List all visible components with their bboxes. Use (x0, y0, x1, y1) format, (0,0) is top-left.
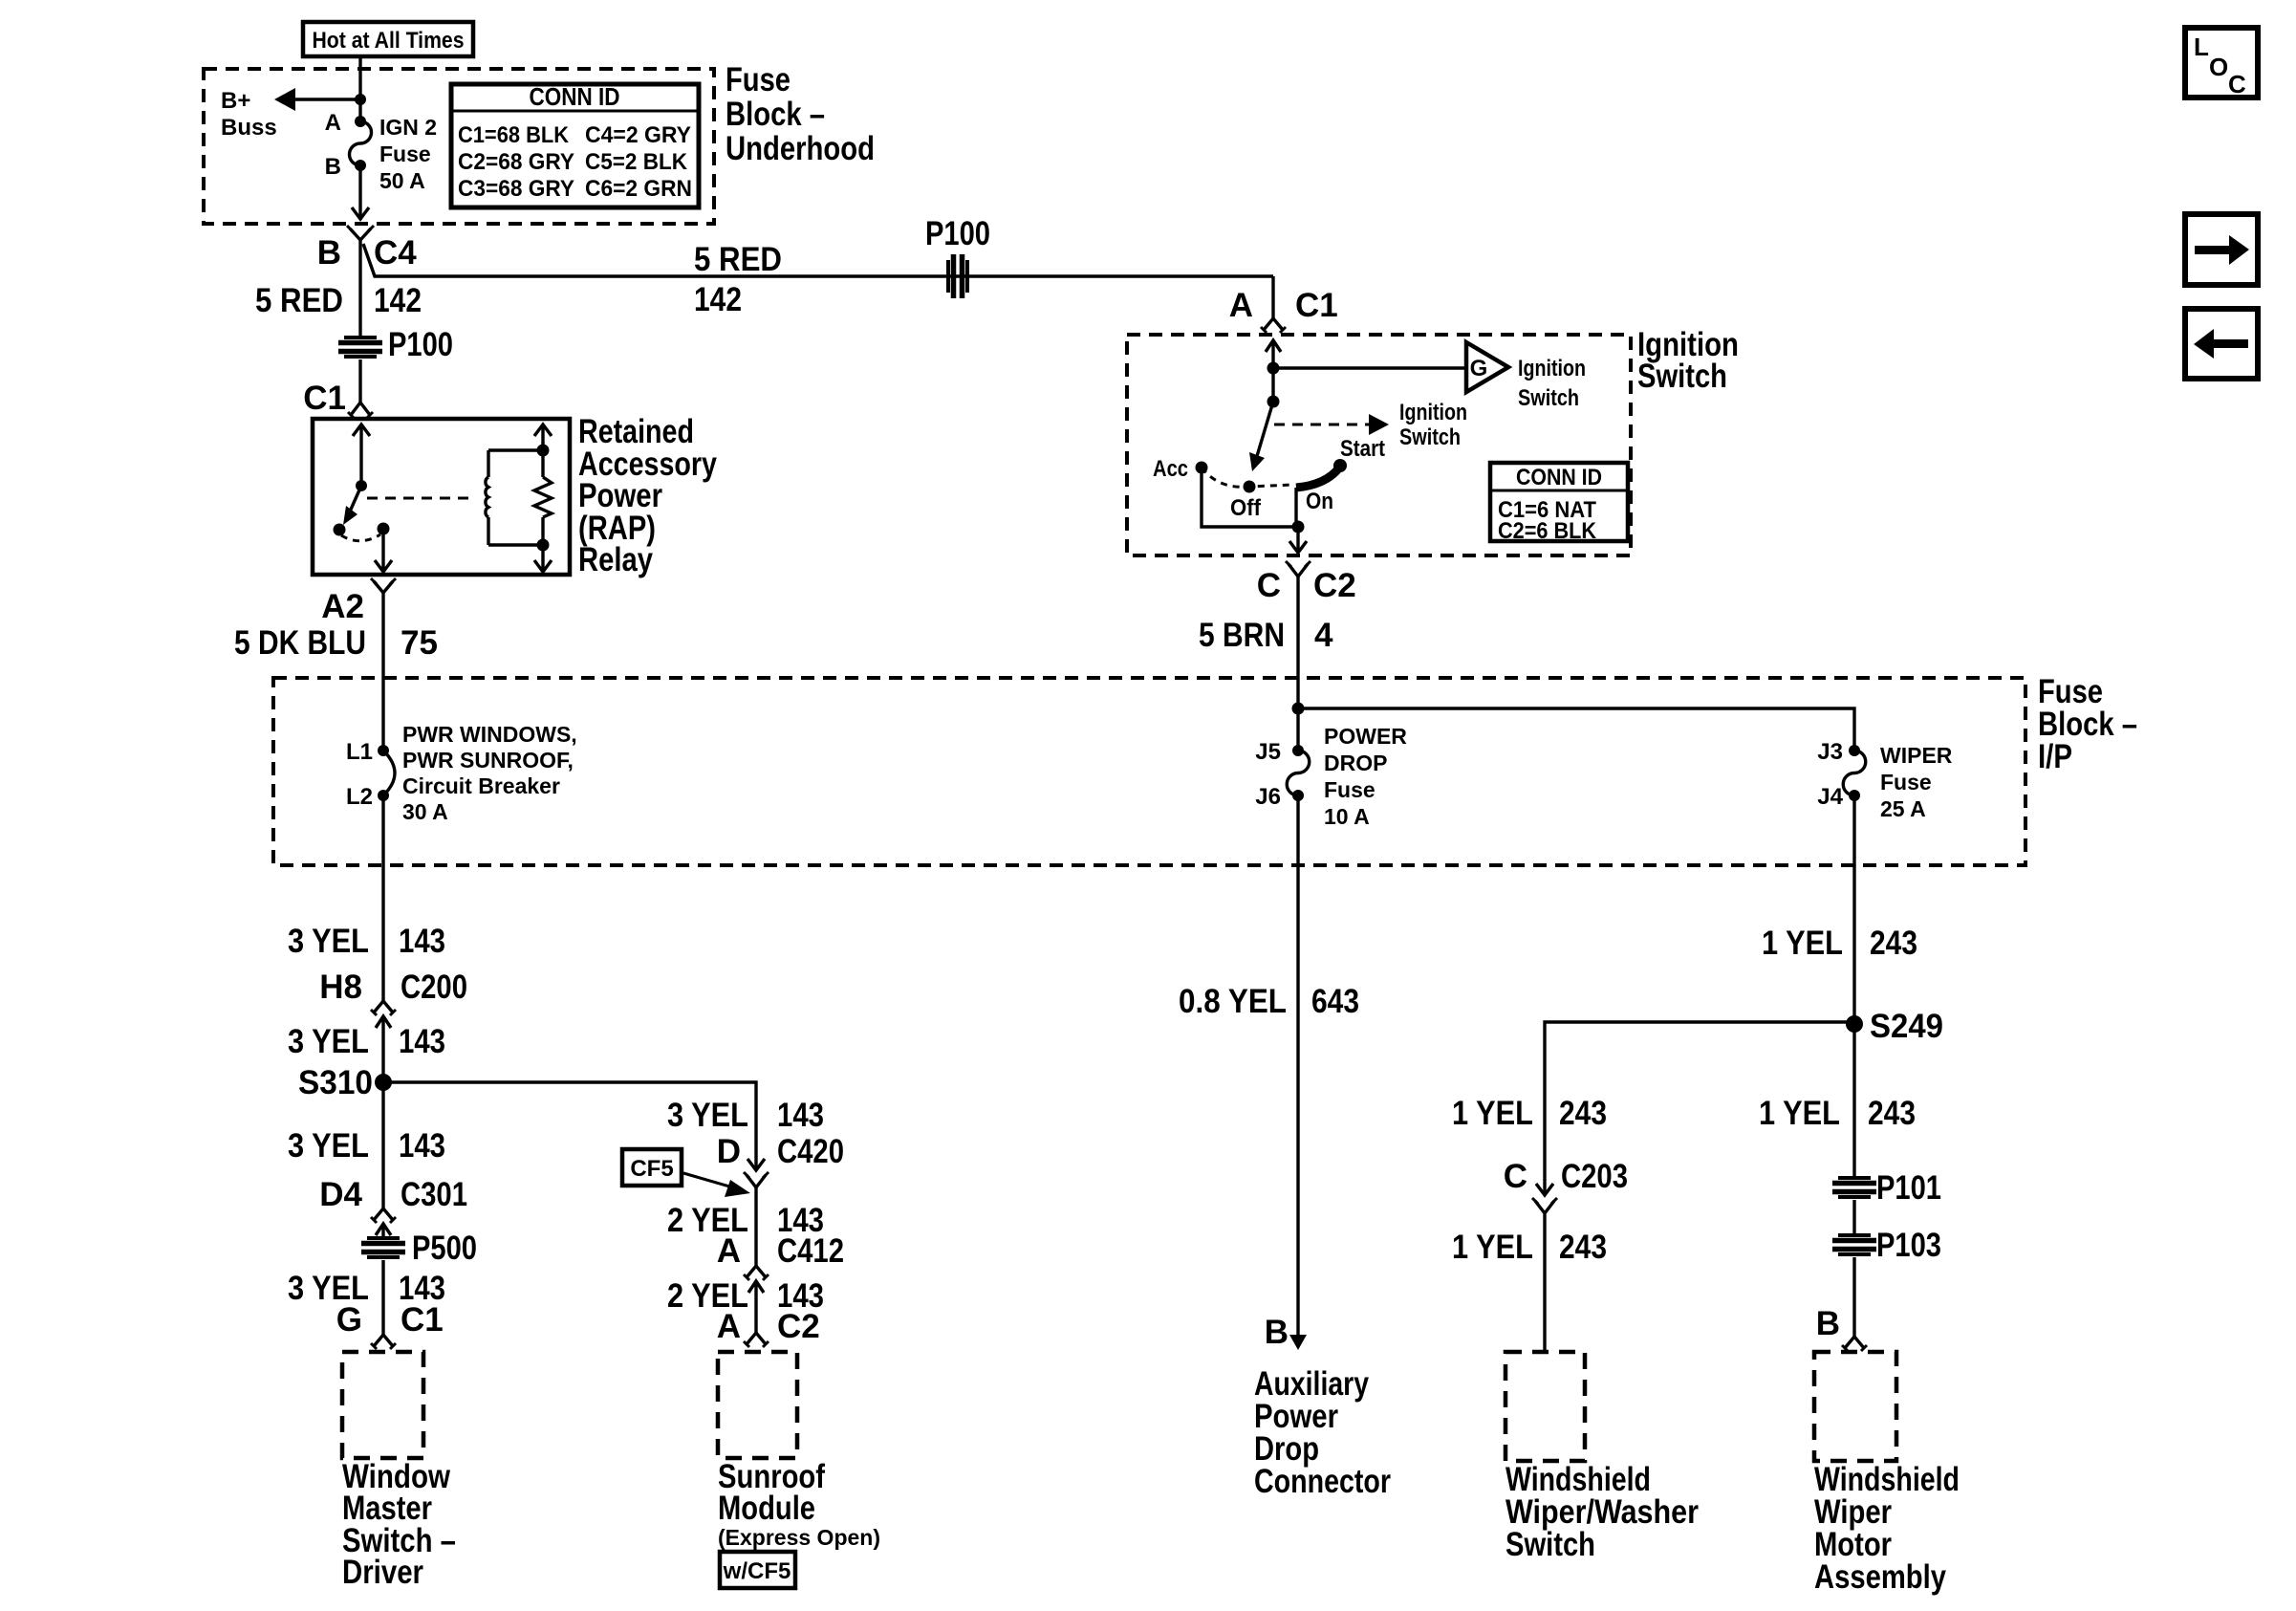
CONN ID table (underhood) (451, 82, 699, 207)
svg-text:POWER: POWER (1324, 724, 1407, 749)
wire S249 to wiper/washer switch branch (1545, 1022, 1854, 1195)
wire C203 down to switch (1543, 1213, 1546, 1352)
svg-text:C1: C1 (1295, 287, 1338, 324)
svg-text:O: O (2209, 53, 2228, 81)
node switch arm pivot (1267, 396, 1280, 408)
svg-text:S249: S249 (1870, 1008, 1943, 1045)
node power drop takeoff (1292, 703, 1305, 715)
label Window Master Switch - Driver (342, 1458, 456, 1591)
svg-text:C1=68 BLK: C1=68 BLK (458, 122, 570, 148)
relay switch pivot (356, 480, 367, 491)
svg-text:Switch: Switch (1505, 1526, 1595, 1563)
wire across to wiper fuse (1298, 708, 1854, 751)
connector A / C412 (717, 1232, 844, 1333)
svg-text:C5=2 BLK: C5=2 BLK (585, 149, 688, 175)
connector A / C2 (sunroof module) (717, 1308, 820, 1347)
svg-text:CONN ID: CONN ID (1516, 465, 1602, 490)
svg-text:143: 143 (777, 1097, 824, 1134)
CF5 option box with arrow (622, 1149, 750, 1197)
svg-text:(Express Open): (Express Open) (718, 1525, 880, 1550)
node coil top (537, 445, 550, 457)
label Fuse Block - I/P (2038, 673, 2137, 775)
svg-text:IGN 2: IGN 2 (379, 115, 437, 140)
svg-text:I/P: I/P (2038, 738, 2072, 775)
fuse POWER DROP 10 A (1255, 724, 1407, 829)
svg-text:50 A: 50 A (379, 168, 425, 193)
svg-text:B: B (1265, 1314, 1289, 1351)
svg-text:Fuse: Fuse (726, 61, 791, 98)
node On output junction (1292, 521, 1305, 533)
svg-text:1 YEL: 1 YEL (1452, 1229, 1533, 1266)
connector H8 / C200 (319, 969, 467, 1082)
node junction at B+ takeoff (355, 94, 366, 105)
wire P100 to C1 (358, 359, 361, 403)
connector B / C4 female fork (317, 226, 418, 272)
wire from hot box down (358, 56, 361, 121)
wire to G terminal (1273, 366, 1464, 369)
relay coil (486, 477, 488, 517)
connector G / C1 (window switch) (336, 1301, 444, 1349)
label Fuse Block - Underhood (726, 61, 875, 167)
svg-text:142: 142 (694, 281, 742, 318)
svg-text:L: L (2194, 33, 2209, 61)
svg-text:Assembly: Assembly (1814, 1558, 1946, 1596)
svg-text:C: C (2228, 70, 2246, 98)
svg-text:L2: L2 (346, 784, 373, 810)
svg-text:D: D (717, 1133, 741, 1170)
svg-text:C4: C4 (374, 234, 417, 272)
inline connector P101 (1832, 1169, 1941, 1207)
wire A2 down into I/P fuse block (381, 593, 384, 751)
wire breaker L2 down out of box (381, 795, 384, 1001)
svg-text:3 YEL: 3 YEL (288, 1023, 369, 1060)
svg-text:1 YEL: 1 YEL (1759, 1095, 1840, 1132)
svg-text:30 A: 30 A (402, 799, 448, 824)
aux power drop connector terminal B arrow (1265, 1314, 1307, 1351)
svg-text:B: B (325, 154, 341, 180)
svg-text:Underhood: Underhood (726, 130, 875, 167)
Acc return wire (1202, 468, 1298, 527)
Start contact thick arc (1296, 436, 1385, 488)
fuse block I/P dashed box (273, 678, 2025, 865)
inline connector P100 (left vertical) (338, 326, 453, 363)
svg-text:PWR SUNROOF,: PWR SUNROOF, (402, 748, 574, 773)
connector C1 female fork (to RAP relay) (303, 380, 373, 418)
relay coil return wire + arrow down (534, 517, 552, 572)
inline connector P103 (1832, 1227, 1941, 1264)
connector C / C203 (1504, 1158, 1628, 1213)
svg-text:Driver: Driver (342, 1554, 423, 1591)
svg-text:J4: J4 (1817, 784, 1843, 810)
svg-text:C412: C412 (777, 1232, 844, 1270)
svg-text:On: On (1306, 489, 1333, 514)
svg-text:G: G (336, 1301, 362, 1339)
svg-text:C200: C200 (401, 969, 467, 1006)
svg-text:C301: C301 (401, 1176, 467, 1213)
wire P103 down to motor (1852, 1257, 1855, 1337)
svg-text:1 YEL: 1 YEL (1762, 925, 1843, 962)
svg-text:D4: D4 (319, 1176, 362, 1213)
svg-text:C1: C1 (401, 1301, 444, 1339)
dashed arc Acc-Off-On (1202, 468, 1292, 487)
svg-text:A: A (717, 1232, 741, 1270)
svg-text:Ignition: Ignition (1518, 356, 1586, 381)
relay output contact dot (378, 523, 390, 535)
node to gauges feed (1267, 362, 1280, 375)
svg-text:J3: J3 (1817, 739, 1843, 765)
wire wiper J4 down to S249 (1852, 795, 1855, 1178)
svg-text:243: 243 (1559, 1229, 1607, 1266)
svg-text:Fuse: Fuse (379, 142, 431, 166)
svg-text:P100: P100 (925, 215, 990, 252)
svg-text:4: 4 (1314, 617, 1333, 654)
svg-text:C3=68 GRY: C3=68 GRY (458, 176, 574, 202)
svg-text:5 RED: 5 RED (694, 241, 782, 278)
svg-text:A: A (325, 110, 341, 136)
svg-text:Relay: Relay (578, 541, 653, 578)
dashed arrow ignition switch pointer (1274, 400, 1467, 450)
svg-text:C2: C2 (1313, 567, 1356, 604)
relay coil feed terminal arrow (534, 425, 552, 477)
dashed link switch to coil (367, 497, 475, 500)
wire P101 to P103 (1852, 1200, 1855, 1235)
svg-text:243: 243 (1868, 1095, 1916, 1132)
svg-text:Fuse: Fuse (1880, 770, 1932, 795)
wire fuse B down to connector (358, 165, 361, 220)
wire P500 down (381, 1260, 384, 1335)
svg-text:C1: C1 (303, 380, 346, 417)
svg-text:Module: Module (718, 1490, 815, 1527)
svg-text:Off: Off (1230, 495, 1262, 521)
svg-text:Fuse: Fuse (1324, 777, 1375, 802)
connector C / C2 female fork (1257, 561, 1356, 604)
relay NO contact dot (334, 524, 346, 536)
relay coil branch top bar (488, 450, 543, 545)
label Ignition Switch (right) (1637, 326, 1739, 395)
svg-text:Circuit Breaker: Circuit Breaker (402, 773, 560, 798)
svg-text:J5: J5 (1255, 739, 1281, 765)
svg-text:3 YEL: 3 YEL (288, 923, 369, 960)
svg-text:A: A (1229, 287, 1253, 324)
node coil bottom (537, 539, 550, 552)
svg-text:Ignition: Ignition (1399, 400, 1467, 425)
svg-text:Acc: Acc (1153, 456, 1188, 482)
svg-text:75: 75 (401, 624, 438, 662)
On output wire (1294, 488, 1297, 527)
svg-text:3 YEL: 3 YEL (288, 1127, 369, 1165)
ignition switch dashed box (1127, 335, 1631, 555)
svg-text:143: 143 (399, 1023, 445, 1060)
svg-text:w/CF5: w/CF5 (723, 1558, 791, 1584)
connector B (wiper motor) female fork (1816, 1305, 1867, 1351)
svg-text:P103: P103 (1876, 1227, 1941, 1264)
svg-text:S310: S310 (298, 1064, 373, 1101)
ignition switch arm with arrowhead (1249, 402, 1273, 471)
svg-text:0.8 YEL: 0.8 YEL (1179, 983, 1287, 1020)
svg-text:P100: P100 (388, 326, 453, 363)
connector D / C420 (717, 1133, 844, 1187)
ignition feed terminal arrow + wire (1266, 340, 1281, 402)
wire down + male arrow (ignition C2) (1289, 527, 1307, 553)
inline connector P500 (361, 1230, 477, 1267)
svg-text:143: 143 (399, 923, 445, 960)
prev-page arrow box (left) (2185, 309, 2258, 379)
fuse IGN 2 50 A (325, 110, 437, 193)
relay output wire + arrow down (375, 529, 392, 572)
inline connector P100 (horizontal run) (925, 215, 990, 298)
svg-text:C: C (1257, 567, 1281, 604)
relay switch arm with arrowhead (343, 486, 361, 525)
svg-text:C2=6 BLK: C2=6 BLK (1498, 518, 1597, 544)
label Windshield Wiper/Washer Switch (1505, 1461, 1699, 1563)
label Windshield Wiper Motor Assembly (1814, 1461, 1960, 1596)
resistor (parallel with coil) (534, 477, 552, 517)
svg-text:C420: C420 (777, 1133, 844, 1170)
label Sunroof Module (Express Open) w/CF5 (718, 1458, 880, 1588)
dashed arc between contacts (341, 534, 380, 541)
svg-text:G: G (1470, 356, 1488, 381)
sunroof module dashed box (718, 1352, 797, 1458)
relay pin 30 terminal arrow + wire to switch pivot (353, 425, 370, 486)
svg-text:10 A: 10 A (1324, 804, 1370, 829)
connector A / C1 female fork (ignition) (1229, 287, 1338, 333)
svg-text:A2: A2 (321, 588, 364, 625)
svg-text:C2: C2 (777, 1308, 820, 1345)
svg-text:B+: B+ (221, 88, 250, 114)
svg-text:243: 243 (1559, 1095, 1607, 1132)
svg-text:243: 243 (1870, 925, 1917, 962)
svg-text:Hot at All Times: Hot at All Times (313, 28, 465, 54)
svg-text:CONN ID: CONN ID (530, 82, 620, 111)
svg-text:5 RED: 5 RED (255, 282, 343, 319)
svg-text:J6: J6 (1255, 784, 1281, 810)
circuit breaker PWR WINDOWS 30 A (346, 722, 577, 824)
svg-text:DROP: DROP (1324, 751, 1387, 775)
wire power drop J6 down out of box (1296, 795, 1299, 1335)
svg-text:C6=2 GRN: C6=2 GRN (585, 176, 692, 202)
svg-text:CF5: CF5 (630, 1156, 673, 1182)
windshield wiper motor assembly dashed box (1814, 1352, 1896, 1461)
svg-text:142: 142 (374, 282, 422, 319)
wire S310 to sunroof branch (383, 1082, 756, 1170)
svg-text:B: B (1816, 1305, 1840, 1342)
svg-text:P500: P500 (412, 1230, 477, 1267)
svg-text:Block –: Block – (726, 96, 825, 133)
Hot at All Times label box (303, 22, 473, 56)
LOC legend box (2185, 28, 2258, 98)
svg-text:P101: P101 (1876, 1169, 1941, 1207)
svg-text:Buss: Buss (221, 115, 277, 141)
CONN ID table (ignition) (1490, 463, 1628, 544)
G terminal triangle (1466, 342, 1586, 411)
svg-text:H8: H8 (319, 969, 362, 1006)
svg-text:643: 643 (1311, 983, 1359, 1020)
svg-text:Switch: Switch (1518, 385, 1579, 411)
svg-text:A: A (717, 1308, 741, 1345)
Off contact (1230, 481, 1262, 522)
svg-text:1 YEL: 1 YEL (1452, 1095, 1533, 1132)
RAP relay box (313, 419, 570, 575)
wire drop to ignition switch A/C1 (1271, 276, 1274, 318)
splice S310 (298, 1064, 392, 1101)
male terminal arrow down (fuse block side) (352, 207, 369, 219)
splice S249 (1846, 1008, 1943, 1045)
svg-text:C: C (1504, 1158, 1527, 1195)
svg-text:5 BRN: 5 BRN (1199, 617, 1285, 654)
svg-text:C2=68 GRY: C2=68 GRY (458, 149, 574, 175)
label Auxiliary Power Drop Connector (1254, 1365, 1391, 1500)
svg-text:WIPER: WIPER (1880, 743, 1953, 768)
connector A2 male arrow + female fork below relay (321, 578, 396, 625)
wire B/C4 fork stem down to P100 (358, 240, 361, 337)
Acc contact (1153, 456, 1208, 482)
wire S310 down (381, 1082, 384, 1208)
svg-text:Switch: Switch (1637, 358, 1727, 395)
label Retained Accessory Power (RAP) Relay (578, 413, 717, 578)
svg-text:5 DK BLU: 5 DK BLU (234, 624, 366, 662)
svg-text:C4=2 GRY: C4=2 GRY (585, 122, 691, 148)
connector D4 / C301 (319, 1176, 467, 1238)
svg-text:3 YEL: 3 YEL (667, 1097, 748, 1134)
B+ Buss arrow wire (221, 88, 360, 141)
wire C420 down (754, 1187, 757, 1266)
windshield wiper/washer switch dashed box (1505, 1352, 1585, 1461)
svg-text:Start: Start (1340, 436, 1385, 462)
next-page arrow box (right) (2185, 214, 2258, 285)
wire C2 down into I/P fuse block (1296, 577, 1299, 751)
svg-text:Connector: Connector (1254, 1463, 1391, 1500)
svg-text:L1: L1 (346, 739, 373, 765)
wire C4 branch elbow to horizontal run (363, 244, 1273, 276)
svg-text:25 A: 25 A (1880, 796, 1926, 821)
svg-text:B: B (317, 234, 341, 272)
fuse block underhood dashed box (204, 69, 714, 224)
svg-text:PWR WINDOWS,: PWR WINDOWS, (402, 722, 577, 747)
window master switch dashed box (342, 1352, 423, 1458)
svg-text:C203: C203 (1561, 1158, 1628, 1195)
svg-text:143: 143 (399, 1127, 445, 1165)
svg-text:Switch: Switch (1399, 425, 1461, 450)
fuse WIPER 25 A (1817, 739, 1952, 821)
